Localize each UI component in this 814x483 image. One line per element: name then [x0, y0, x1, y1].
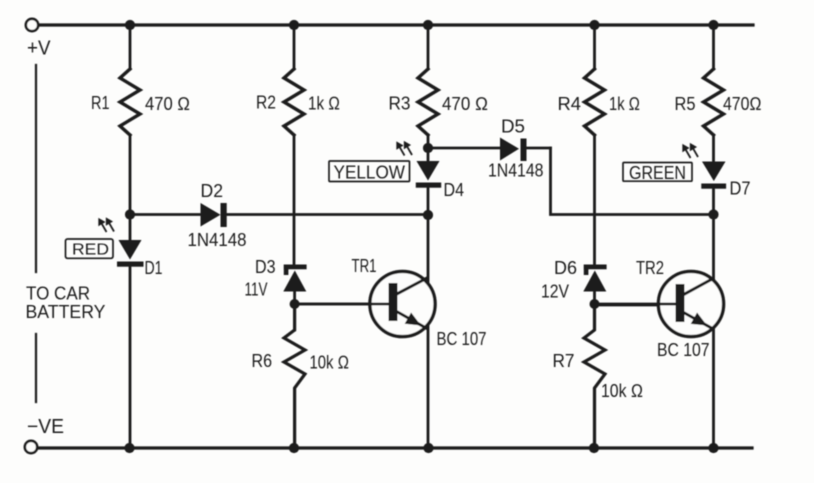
- svg-text:D6: D6: [554, 257, 577, 278]
- svg-text:BATTERY: BATTERY: [26, 301, 106, 322]
- svg-text:YELLOW: YELLOW: [334, 162, 406, 183]
- svg-text:D5: D5: [501, 116, 525, 137]
- svg-text:BC 107: BC 107: [657, 339, 710, 360]
- svg-text:TR1: TR1: [352, 255, 377, 276]
- svg-text:10k Ω: 10k Ω: [310, 352, 350, 373]
- svg-text:12V: 12V: [541, 281, 570, 302]
- svg-text:470 Ω: 470 Ω: [442, 93, 488, 114]
- svg-text:470 Ω: 470 Ω: [145, 93, 190, 114]
- svg-text:D3: D3: [255, 256, 276, 277]
- svg-text:R4: R4: [558, 93, 582, 114]
- svg-text:1k Ω: 1k Ω: [308, 93, 340, 114]
- svg-text:R3: R3: [389, 93, 411, 114]
- svg-text:R2: R2: [256, 92, 276, 113]
- svg-text:11V: 11V: [245, 279, 268, 300]
- svg-text:R1: R1: [91, 92, 110, 113]
- svg-text:1N4148: 1N4148: [488, 160, 544, 181]
- svg-text:R6: R6: [252, 350, 273, 371]
- svg-text:RED: RED: [72, 242, 109, 259]
- svg-text:D4: D4: [444, 179, 465, 200]
- svg-text:1k Ω: 1k Ω: [609, 93, 640, 114]
- svg-text:GREEN: GREEN: [629, 162, 686, 183]
- svg-text:1N4148: 1N4148: [188, 229, 247, 250]
- svg-text:D7: D7: [730, 178, 751, 199]
- svg-text:D1: D1: [145, 257, 163, 278]
- svg-text:BC 107: BC 107: [437, 328, 487, 349]
- svg-text:−VE: −VE: [27, 416, 64, 438]
- svg-text:470Ω: 470Ω: [723, 93, 762, 114]
- svg-text:TR2: TR2: [636, 257, 664, 278]
- svg-text:+V: +V: [27, 38, 51, 60]
- svg-text:R7: R7: [553, 350, 575, 371]
- svg-text:D2: D2: [201, 180, 224, 201]
- svg-text:R5: R5: [675, 93, 696, 114]
- svg-text:10k Ω: 10k Ω: [601, 380, 643, 401]
